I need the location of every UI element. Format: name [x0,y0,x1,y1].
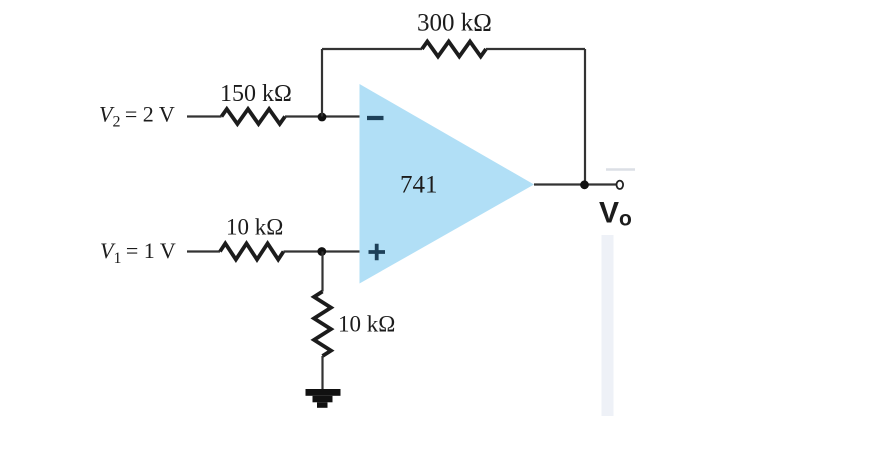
scan artifact band [602,235,614,416]
resistor 10 kOhm to ground [314,292,331,357]
resistor 10 kOhm input [220,244,284,260]
node at inverting input junction [318,113,327,122]
wire feedback top left [322,48,422,50]
op-amp U1 (741 triangle) [360,84,535,284]
output terminal circle [617,181,624,189]
wire op-amp output [534,183,616,185]
node at output junction [580,180,589,189]
node at non-inverting input junction [317,247,326,256]
svg-text:150 kΩ: 150 kΩ [220,81,292,107]
wire from V2 source to resistor [187,115,222,117]
scan artifact line [606,168,635,170]
svg-text:741: 741 [400,172,438,199]
wire junction down to grounding resistor [321,252,323,292]
svg-text:10 kΩ: 10 kΩ [226,215,283,240]
wire resistor to ground [321,356,323,390]
svg-text:V2 = 2 V: V2 = 2 V [99,102,175,131]
svg-text:Vo: Vo [599,197,632,231]
wire resistor to inverting input [285,115,360,117]
op-amp inverting input minus sign [367,116,384,120]
wire feedback top right [486,48,585,50]
svg-text:V1 = 1 V: V1 = 1 V [100,238,176,267]
ground symbol [306,389,341,408]
svg-text:300 kΩ: 300 kΩ [417,10,492,37]
wire feedback right vertical [584,49,586,185]
svg-text:10 kΩ: 10 kΩ [338,312,395,337]
resistor 300 kOhm feedback [422,42,486,57]
wire resistor to non-inverting input [284,250,360,252]
wire feedback left vertical [321,49,323,117]
wire from V1 source to resistor [187,250,220,252]
resistor 150 kOhm [222,109,286,124]
op-amp non-inverting input plus sign [369,244,386,260]
